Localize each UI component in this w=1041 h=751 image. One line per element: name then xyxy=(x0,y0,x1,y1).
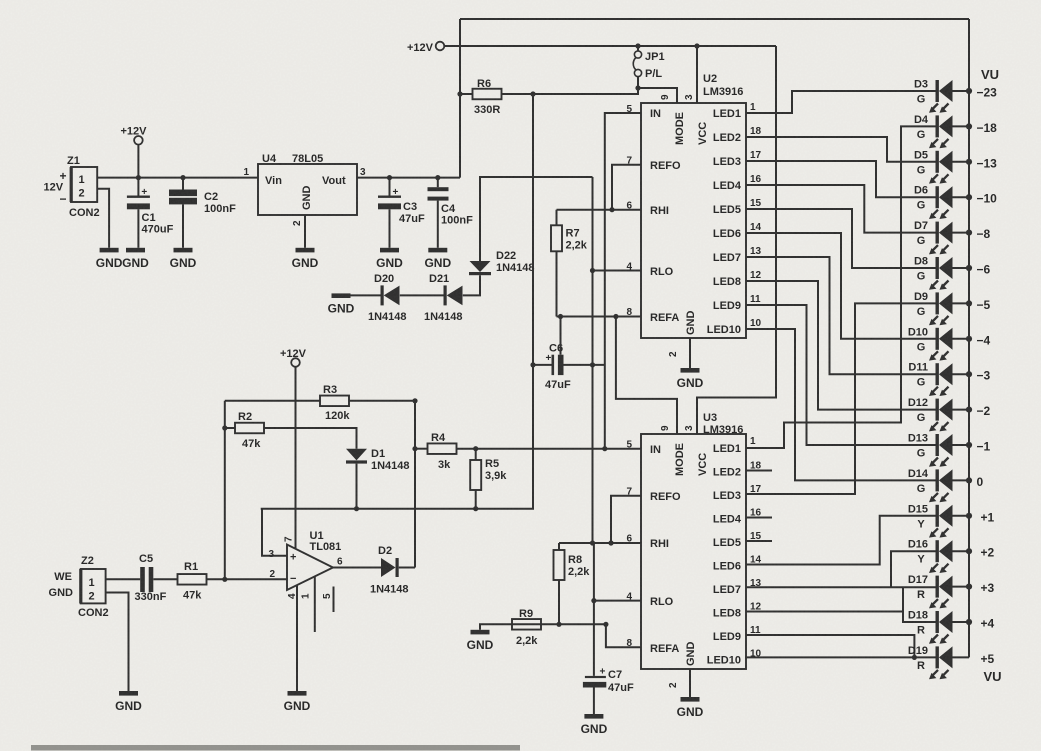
wire D1 cathode xyxy=(356,464,358,509)
wire U2 RHI row xyxy=(557,209,642,211)
node n rlo U3 xyxy=(591,598,596,603)
wire gnd to D20 xyxy=(351,294,381,296)
wire C7 bottom lead xyxy=(593,688,595,715)
wire R6 right xyxy=(502,88,639,94)
node n rlo U2 xyxy=(590,268,595,273)
ground GND U3 xyxy=(677,697,704,719)
LED D11 xyxy=(908,362,990,396)
wire R1 to opamp xyxy=(207,578,288,580)
node n in bus xyxy=(602,446,607,451)
wire C1 top lead xyxy=(137,178,139,196)
wire U4 Vout rail xyxy=(357,177,460,179)
wire U3 IN row xyxy=(605,448,641,450)
ground GND Z1 xyxy=(96,248,123,270)
wire D2/R4 node riser xyxy=(414,401,416,568)
node n R5 bias xyxy=(473,506,478,511)
op IC U2 LM3916 xyxy=(626,73,761,357)
resistor R5 3,9k xyxy=(470,458,507,490)
node n C4 top xyxy=(435,175,440,180)
wire D22 anode riser xyxy=(480,177,593,261)
wire jumper to mode xyxy=(638,88,677,103)
wire C4 bottom lead xyxy=(437,201,439,248)
resistor R1 47k xyxy=(178,561,207,602)
wire U3 p18 stub xyxy=(746,470,772,472)
wire 5V riser to top rail xyxy=(459,19,461,178)
ground GND U1 xyxy=(284,691,311,713)
ground GND Z2 xyxy=(115,691,142,713)
node n R4 node xyxy=(412,446,417,451)
LED D4 xyxy=(914,114,997,148)
wire noninv bias row xyxy=(262,509,287,556)
wire U2 p16 to D7 xyxy=(746,185,936,233)
LED D16 xyxy=(908,539,995,573)
scan artifact bar xyxy=(31,745,520,751)
LED D10 xyxy=(908,326,991,360)
wire R2 left xyxy=(225,427,235,429)
jumper JP1 P/L xyxy=(633,51,664,80)
capacitor C2 100nF xyxy=(169,190,236,216)
wire D17 D18 riser xyxy=(903,587,936,622)
capacitor C7 47uF xyxy=(583,667,634,695)
op-amp U1 TL081 xyxy=(268,530,343,599)
wire U3 p13 to D17 xyxy=(746,586,936,588)
diode D21 1N4148 xyxy=(424,273,463,323)
wire Z1 pin1 to U4 Vin xyxy=(97,177,258,179)
ground GND C4 xyxy=(424,248,451,270)
label VU bottom xyxy=(984,669,1002,684)
node n C3 top xyxy=(387,175,392,180)
+12V terminal left xyxy=(121,126,148,145)
node n jumper xyxy=(635,85,640,90)
wire U3 p11 to D19 xyxy=(746,635,914,657)
capacitor C1 470uF xyxy=(127,187,174,236)
node n U2 vcc xyxy=(694,43,699,48)
node n refa-mode xyxy=(613,314,618,319)
LED D19 xyxy=(908,645,995,679)
LED D9 xyxy=(914,291,991,325)
node n refo-rhi U3 xyxy=(608,540,613,545)
wire D21 to D22 xyxy=(463,275,480,295)
capacitor C5 330nF xyxy=(135,553,167,603)
node n D1 bias xyxy=(354,506,359,511)
wire C2 bottom lead xyxy=(182,204,184,247)
wire R7 top xyxy=(556,210,558,226)
wire R3 right xyxy=(349,400,415,402)
wire D2 cathode xyxy=(399,567,415,569)
node n fb input xyxy=(222,577,227,582)
wire reference chain xyxy=(592,177,594,543)
wire U2 REFA row xyxy=(557,316,642,318)
wire U3 RHI row xyxy=(559,542,641,544)
wire R5 top xyxy=(475,449,477,460)
node n JP1 +12 xyxy=(635,43,640,48)
resistor R8 2,2k xyxy=(554,550,591,580)
node n +12V/C1 xyxy=(136,175,141,180)
wire +12V rail xyxy=(444,45,776,47)
label VU top xyxy=(981,67,999,82)
wire R6 left xyxy=(460,93,473,95)
LED D17 xyxy=(908,574,995,608)
wire U3 p10 to D19 xyxy=(746,657,936,658)
ground GND C2 xyxy=(170,248,197,270)
LED D8 xyxy=(914,256,991,290)
diode D2 1N4148 xyxy=(370,545,409,596)
wire feedback left riser xyxy=(224,401,226,580)
diode D20 1N4148 xyxy=(368,273,407,323)
wire U3 p1 to D4 xyxy=(746,126,936,448)
wire U2 p1 to D3 xyxy=(746,91,936,113)
wire C5 to R1 xyxy=(153,578,177,580)
wire bias feed R6 chain xyxy=(261,94,533,509)
wire +12V feed to U3 xyxy=(697,46,776,434)
capacitor C6 47uF xyxy=(545,343,571,392)
wire U2 p12 to D12 xyxy=(746,281,936,410)
resistor R4 3k xyxy=(428,432,457,471)
connector Z1 CON2 xyxy=(44,155,100,219)
wire U3 p17 to D9 xyxy=(746,303,936,494)
wire C3 top lead xyxy=(389,178,391,196)
ground GND R9 xyxy=(467,630,494,652)
ground GND C3 xyxy=(376,248,403,270)
wire U3 p14 to D15 xyxy=(746,516,936,565)
wire R9 gnd stem xyxy=(480,624,490,630)
wire C6 right lead xyxy=(564,364,605,366)
wire U3 gnd stub xyxy=(689,669,691,697)
wire U2 vcc stub xyxy=(696,46,698,103)
node n R2 in xyxy=(222,425,227,430)
LED D6 xyxy=(914,185,997,219)
wire top 5V rail to LED bus xyxy=(460,18,969,20)
wire C4 top lead xyxy=(437,178,439,188)
LED D5 xyxy=(914,149,997,183)
+12V terminal top xyxy=(407,42,444,54)
node n R3 out xyxy=(412,398,417,403)
wire U2 p10 to D14 xyxy=(746,329,936,480)
wire R4 right xyxy=(457,448,605,450)
ground GND U2 xyxy=(677,368,704,390)
LED D7 xyxy=(914,220,991,254)
LED D14 xyxy=(908,468,984,502)
wire R3 left xyxy=(225,400,320,402)
op IC U3 LM3916 xyxy=(626,412,761,688)
wire JP1 top stub xyxy=(637,46,639,51)
wire JP1 bottom stub xyxy=(637,77,639,88)
wire Z2 pin1 to C5 xyxy=(106,578,141,580)
wire C6 refa riser xyxy=(560,317,562,355)
wire R9 row xyxy=(490,623,606,625)
wire U3 p12 to D18 xyxy=(746,611,903,613)
wire +12V left stem xyxy=(137,145,139,178)
wire U3 p15 stub xyxy=(746,540,772,542)
wire U2 p13 to D11 xyxy=(746,257,936,374)
wire D20 to D21 xyxy=(400,294,444,296)
wire opamp pin4 stem xyxy=(296,585,298,691)
wire U3 mode link xyxy=(616,317,677,435)
LED D15 xyxy=(908,503,995,537)
wire U2 p15 to D8 xyxy=(746,209,936,268)
wire opamp pin1 stub xyxy=(314,577,316,632)
node n C6 refa xyxy=(558,314,563,319)
diode D1 1N4148 xyxy=(346,448,410,472)
ground GND C7 xyxy=(581,714,608,736)
wire C2 top lead xyxy=(182,178,184,190)
wire U2 p11 to D13 xyxy=(746,305,936,445)
wire C3 bottom lead xyxy=(389,209,391,248)
wire C7 feed xyxy=(593,543,595,676)
resistor R6 330R xyxy=(473,78,502,116)
node n C6 right xyxy=(590,362,595,367)
node n R4 R5 xyxy=(473,446,478,451)
wire Z2 pin2 to gnd xyxy=(106,593,129,692)
ground GND U4 xyxy=(292,248,319,270)
wire U3 REFA jog xyxy=(606,624,641,647)
node n refo-rhi U2 xyxy=(609,207,614,212)
node n p11 D19 xyxy=(912,655,917,660)
LED D18 xyxy=(908,610,995,644)
LED D12 xyxy=(908,397,991,431)
node n refa jog U3 xyxy=(603,622,608,627)
wire LED anode bus xyxy=(968,19,970,657)
resistor R3 120k xyxy=(320,384,350,422)
wire U2 REFO jog xyxy=(612,165,641,210)
wire U2 p18 to D5 xyxy=(746,137,936,162)
regulator U4 78L05 xyxy=(243,153,366,226)
wire U3 p16 stub xyxy=(746,517,772,519)
connector Z2 CON2 xyxy=(49,555,109,619)
wire U2 gnd stub xyxy=(689,338,691,368)
wire R7 bottom xyxy=(556,251,558,316)
LED D13 xyxy=(908,433,991,467)
wire U2 IN bus xyxy=(605,113,641,449)
capacitor C3 47uF xyxy=(378,187,425,225)
node n R6 tap xyxy=(457,91,462,96)
node n chain rhi U3 xyxy=(590,540,595,545)
capacitor C4 100nF xyxy=(428,187,474,226)
wire R8 bottom xyxy=(558,580,560,624)
wire C1 bottom lead xyxy=(137,209,139,248)
wire opamp pin5 stub xyxy=(333,587,335,613)
wire R2 right xyxy=(264,428,357,449)
resistor R9 2,2k xyxy=(512,608,541,647)
wire opamp v+ stem xyxy=(295,366,297,549)
wire U4 gnd stub xyxy=(304,215,306,248)
wire opamp out xyxy=(333,567,381,569)
wire R4 left xyxy=(415,448,428,450)
+12V terminal opamp xyxy=(280,348,307,367)
resistor R7 2,2k xyxy=(551,225,588,251)
resistor R2 47k xyxy=(235,411,264,450)
wire Z1 pin2 to ground xyxy=(97,189,109,248)
node n C2 top xyxy=(180,175,185,180)
ground GND D20 xyxy=(328,293,355,315)
wire R8 top xyxy=(558,543,560,550)
node n R6 bias xyxy=(530,91,535,96)
wire U3 RLO row xyxy=(594,600,641,602)
wire U3 riser D16 xyxy=(891,551,936,587)
wire U2 p17 to D6 xyxy=(746,161,936,197)
wire R5 bottom xyxy=(475,490,477,509)
wire C6 left lead xyxy=(533,364,552,366)
diode D22 1N4148 xyxy=(469,250,535,275)
wire U2 p14 to D10 xyxy=(746,233,936,339)
node n C6 left xyxy=(530,362,535,367)
LED D3 xyxy=(914,79,997,113)
ground GND C1 xyxy=(122,248,149,270)
wire U2 RLO row xyxy=(593,270,642,272)
wire U3 REFO jog xyxy=(611,496,641,543)
node n R8 R9 xyxy=(556,622,561,627)
